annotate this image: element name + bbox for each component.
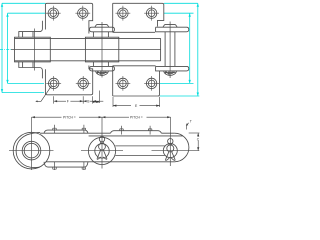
svg-text:PITCH =: PITCH = [63, 116, 76, 120]
svg-text:T: T [190, 120, 192, 124]
svg-text:E: E [135, 104, 138, 108]
svg-text:F: F [67, 100, 69, 104]
svg-text:B: B [87, 100, 90, 104]
svg-text:PITCH =: PITCH = [130, 116, 143, 120]
svg-text:C: C [197, 137, 200, 141]
